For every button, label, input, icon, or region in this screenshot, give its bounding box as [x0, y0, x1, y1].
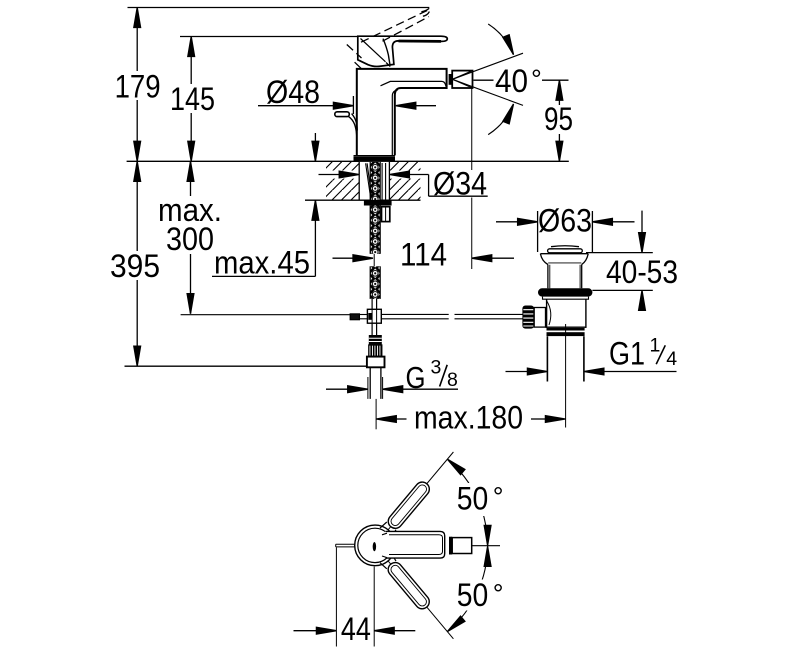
dimension max.180: [376, 416, 565, 423]
handle axis lower: [388, 561, 453, 639]
handle raised position dashed outline: [347, 11, 429, 59]
dimension 114: [333, 255, 515, 262]
svg-text:°: °: [531, 65, 542, 95]
top view handle upper: [380, 479, 432, 537]
check valve dark block: [369, 335, 382, 345]
bottom reference line (395 end): [125, 365, 367, 367]
flexible hose upper segment: [370, 206, 380, 254]
svg-text:1: 1: [650, 335, 661, 357]
flange lower edge: [543, 297, 589, 300]
supply shank braided section through counter: [370, 162, 380, 200]
dimension 145: [188, 37, 195, 162]
50 deg text backgrounds: [454, 483, 507, 516]
handle neck left edge: [383, 39, 390, 65]
rod guide bracket: [382, 207, 390, 222]
body circle outer: [355, 525, 396, 566]
handle-top reference line 145: [180, 36, 358, 38]
FRONT VIEW: [110, 8, 678, 648]
svg-text:max.180: max.180: [414, 400, 523, 436]
waste center line: [565, 324, 567, 428]
dimension diameter 34: [319, 171, 488, 196]
faucet body outline: [357, 69, 447, 155]
svg-text:40: 40: [495, 63, 528, 99]
svg-text:°: °: [493, 482, 504, 512]
50 degree arc upper: [447, 459, 487, 545]
horizontal pop-up rod left reference: [181, 314, 351, 316]
dimension max.45: [212, 133, 319, 276]
aerator internal X: [452, 71, 472, 88]
counter slab hatching lower band: [326, 179, 421, 200]
svg-text:114: 114: [400, 237, 447, 273]
hose neck: [372, 299, 377, 309]
aerator extension line down: [471, 88, 473, 170]
dimension 40-53: [586, 211, 653, 311]
flexible hose lower segment: [370, 266, 380, 299]
40 degree arc lower: [488, 104, 513, 135]
svg-text:145: 145: [170, 81, 215, 117]
hose gap core line: [373, 254, 375, 266]
waste lower body: [547, 299, 586, 328]
40 degree arc upper: [488, 24, 513, 55]
hole edge left: [358, 162, 360, 200]
top view center line: [472, 545, 500, 547]
dimension G3/8: [326, 386, 458, 393]
top view handle lower: [380, 553, 432, 611]
top reference line (handle raised tip level): [128, 7, 430, 9]
waste tailpipe: [547, 336, 584, 381]
svg-text:395: 395: [110, 248, 160, 284]
top view aerator bar: [449, 537, 452, 555]
waste O-ring seal: [538, 288, 592, 296]
pop-up rod through counter: [382, 163, 386, 200]
waste cap dome: [551, 245, 579, 248]
svg-text:4: 4: [666, 348, 677, 370]
50 degree arc lower: [447, 545, 487, 631]
knurled side knob: [522, 306, 534, 329]
svg-text:95: 95: [544, 101, 573, 137]
aerator box: [452, 71, 472, 88]
extension line rod tip: [335, 548, 337, 647]
dimension max.300: [187, 161, 194, 313]
handle axis upper: [388, 452, 453, 530]
handle base inner diagonal: [361, 39, 386, 62]
faucet column inner line: [392, 90, 398, 156]
rod coupling: [350, 314, 359, 320]
dimension 95: [556, 80, 563, 161]
connection nut: [367, 357, 385, 368]
plastic wedge: [366, 163, 372, 199]
dimension diameter 63: [496, 211, 635, 253]
svg-text:max.45: max.45: [214, 245, 310, 281]
raised handle dash fragments: [421, 8, 429, 16]
aerator joint dark bar: [449, 74, 452, 85]
dimension G1 1/4: [506, 368, 677, 375]
spray fan lines: [452, 53, 523, 105]
svg-text:44: 44: [341, 611, 371, 647]
counter slab hatching upper band: [326, 162, 421, 171]
svg-text:Ø48: Ø48: [266, 74, 320, 110]
dimension diameter 48: [258, 96, 436, 114]
top view spout arm: [385, 531, 445, 558]
handle lever blade and base outline: [358, 36, 448, 66]
svg-text:50: 50: [457, 577, 489, 613]
base plate: [354, 156, 396, 161]
slab bottom line: [305, 199, 421, 201]
svg-text:300: 300: [166, 221, 214, 257]
base plate top line: [354, 155, 396, 157]
mounting hole white area: [359, 162, 389, 200]
body circle inner: [358, 528, 392, 562]
pop-up rod top view: [336, 544, 355, 547]
hole edge right: [388, 162, 390, 200]
side knob stem: [534, 308, 545, 328]
svg-text:50: 50: [457, 480, 489, 516]
svg-text:40-53: 40-53: [606, 254, 678, 290]
dimension 395: [134, 161, 141, 366]
countertop reference line: [127, 160, 569, 162]
hose below linkage: [372, 323, 377, 335]
svg-text:°: °: [493, 579, 504, 609]
svg-text:Ø63: Ø63: [538, 202, 592, 238]
svg-text:G1: G1: [609, 336, 645, 372]
waste flare: [540, 253, 588, 255]
faucet center line: [375, 399, 377, 429]
40 degree center line: [474, 79, 494, 81]
pop-up linkage block: [367, 309, 381, 323]
svg-text:G: G: [406, 360, 426, 395]
faucet body inner contour: [381, 81, 447, 87]
dimension 44: [294, 627, 416, 634]
svg-text:179: 179: [115, 69, 161, 105]
extension line faucet center: [373, 567, 375, 647]
svg-text:8: 8: [447, 369, 458, 391]
mounting nut: [364, 200, 392, 206]
G3/8 threaded tail: [370, 367, 381, 399]
svg-text:Ø34: Ø34: [433, 165, 487, 201]
waste upper cylinder: [548, 265, 582, 289]
dimension 179: [134, 8, 141, 162]
knurled nut: [369, 345, 382, 356]
horizontal rod to waste valve: [381, 314, 448, 318]
drain pull lever: [335, 112, 357, 137]
handle blade thick underside: [399, 40, 442, 43]
top view aerator box: [452, 538, 472, 554]
waste bottom flange: [546, 326, 587, 328]
grohe logo mark: [373, 542, 376, 551]
junction chamfer marks: [382, 533, 387, 557]
svg-text:3: 3: [431, 356, 442, 378]
